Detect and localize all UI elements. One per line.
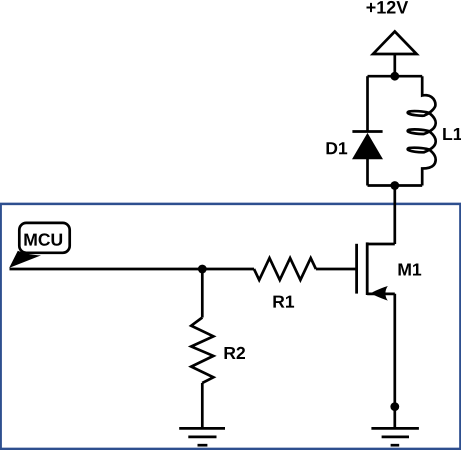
label L1 bbox=[443, 128, 461, 140]
junction dot top bbox=[390, 72, 399, 81]
label MCU bbox=[24, 233, 62, 245]
MOSFET M1 drain lead bbox=[367, 243, 395, 246]
MCU callout bubble bbox=[19, 223, 69, 253]
wire: R1 to gate bbox=[316, 268, 357, 271]
label R1 bbox=[273, 296, 294, 308]
label R2 bbox=[225, 347, 246, 359]
+12V net label bbox=[367, 1, 409, 14]
MOSFET M1 source lead bbox=[367, 293, 395, 296]
ground under M1 bbox=[371, 427, 419, 430]
junction dot gate wire bbox=[198, 265, 207, 274]
diode D1 triangle bbox=[352, 133, 383, 159]
wire: source to ground bbox=[393, 294, 396, 429]
ground under R2 bbox=[179, 427, 225, 430]
wire: R2 to ground bbox=[201, 383, 204, 429]
power symbol +12V triangle bbox=[373, 32, 417, 55]
bottom rail wire bbox=[368, 184, 423, 187]
junction dot bottom rail bbox=[390, 181, 399, 190]
top rail wire bbox=[368, 75, 423, 78]
diode D1 cathode bar bbox=[352, 130, 382, 133]
resistor R2 zigzag bbox=[191, 318, 213, 383]
annotation box (blue) bbox=[1, 204, 461, 449]
wire: rail to MOSFET drain bbox=[393, 186, 396, 245]
MOSFET M1 gate bar bbox=[355, 244, 358, 294]
main gate wire from MCU bbox=[10, 268, 255, 271]
wire: top rail to D1 cathode bbox=[366, 76, 369, 131]
resistor R1 zigzag bbox=[254, 258, 316, 280]
wire: junction down to R2 bbox=[201, 269, 204, 318]
label D1 bbox=[327, 142, 348, 154]
label M1 bbox=[399, 264, 422, 276]
MCU callout tail bbox=[9, 251, 41, 268]
junction dot source bbox=[390, 402, 399, 411]
MOSFET M1 channel bar bbox=[366, 242, 369, 295]
MOSFET M1 source arrow bbox=[371, 286, 388, 301]
wire: D1 anode to bottom rail bbox=[366, 159, 369, 186]
inductor L1 coil bbox=[408, 76, 436, 185]
wire: power symbol to top rail bbox=[393, 54, 396, 76]
